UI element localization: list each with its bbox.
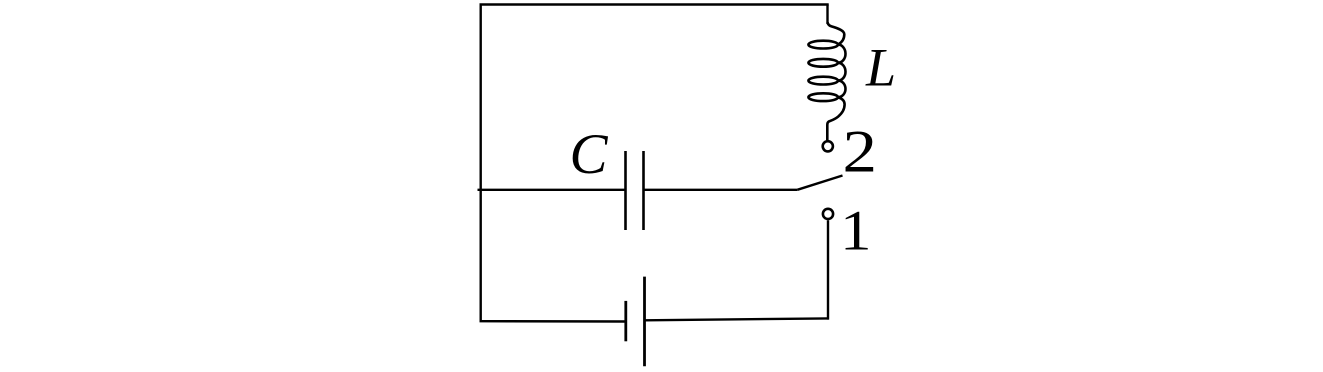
wire : bottom right horizontal to battery: [645, 318, 829, 320]
capacitor C : right plate: [642, 151, 645, 230]
inductor L : link arc 2-3: [838, 63, 846, 81]
wire : bottom left horizontal from battery: [480, 320, 626, 323]
inductor L : link arc 1-2: [838, 45, 846, 63]
inductor L : exit curve: [827, 97, 844, 140]
svg-text:2: 2: [843, 119, 878, 185]
switch terminal 1 circle: [823, 209, 833, 219]
inductor L : turn 4 ellipse: [808, 93, 838, 101]
wire : right vertical from terminal 1 down: [827, 220, 829, 319]
inductor L : entrance curve: [828, 22, 845, 44]
wire : middle horizontal (right of capacitor): [644, 189, 798, 191]
wire : right vertical down to inductor: [826, 5, 828, 25]
svg-text:L: L: [865, 38, 896, 98]
wire : top horizontal: [480, 3, 829, 5]
inductor L : turn 3 ellipse: [808, 77, 838, 85]
switch arm (open, between 1 and 2): [797, 176, 842, 190]
inductor L : turn 2 ellipse: [808, 59, 838, 67]
inductor L : turn 1 ellipse: [808, 41, 838, 49]
battery : short plate (-): [624, 301, 627, 341]
battery : long plate (+): [643, 277, 646, 367]
svg-text:1: 1: [840, 200, 872, 263]
svg-text:C: C: [570, 123, 609, 186]
capacitor C : left plate: [624, 151, 627, 230]
wire : middle horizontal (left of capacitor): [478, 189, 627, 191]
inductor L : link arc 3-4: [838, 81, 845, 98]
switch terminal 2 circle: [823, 141, 833, 151]
wire : left vertical side of loop: [480, 5, 482, 322]
